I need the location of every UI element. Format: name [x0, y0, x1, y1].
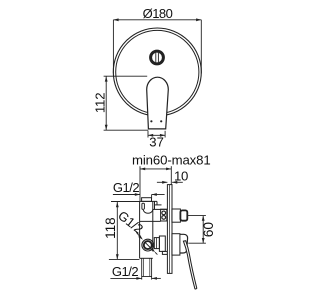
- svg-text:10: 10: [174, 169, 188, 184]
- svg-text:112: 112: [92, 93, 107, 114]
- svg-text:37: 37: [149, 135, 164, 150]
- svg-text:60: 60: [201, 222, 216, 238]
- svg-text:G1/2: G1/2: [113, 180, 139, 195]
- svg-text:G1/2: G1/2: [112, 264, 138, 279]
- svg-text:118: 118: [103, 217, 118, 239]
- svg-text:Ø180: Ø180: [143, 6, 173, 21]
- svg-text:min60-max81: min60-max81: [132, 152, 211, 167]
